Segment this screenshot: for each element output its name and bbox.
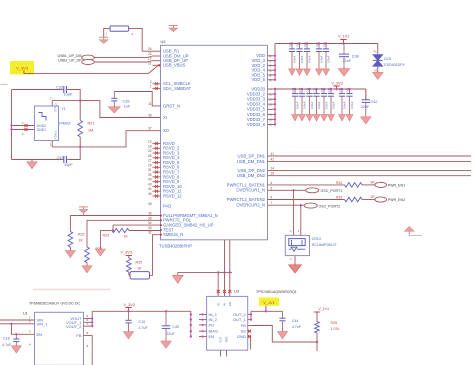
power net V_1V1 tap [338, 35, 349, 45]
capacitor C24 100nF [291, 87, 299, 114]
svg-text:5: 5 [271, 186, 273, 190]
wire EN net [12, 324, 35, 336]
svg-text:FB: FB [76, 333, 81, 338]
capacitor C41 100nF [346, 87, 354, 114]
U2 pin VDD33_6 [247, 112, 275, 117]
U2 pin VDD33_8 [247, 122, 275, 127]
svg-text:4.7uF: 4.7uF [139, 326, 149, 330]
svg-text:1M: 1M [88, 129, 93, 133]
U2 pin GRST_N [148, 102, 180, 108]
ground arrow below C40 [339, 115, 346, 121]
ground arrow below C33 [304, 69, 311, 75]
power symbol down-arrow above U2 [169, 25, 178, 31]
resistor R31 0R [345, 181, 376, 188]
U2 pin RSVD [148, 140, 175, 146]
wire SMBUS_N net [129, 235, 161, 276]
svg-text:4.7uF: 4.7uF [292, 325, 302, 329]
svg-text:RCLAMP0512T: RCLAMP0512T [312, 243, 338, 247]
ground arrow below C30 [289, 69, 296, 75]
svg-text:43: 43 [148, 182, 152, 186]
svg-text:46: 46 [268, 64, 272, 68]
ground arrow below C39 [108, 107, 120, 113]
ground arrow below C29 [328, 115, 335, 121]
wire U1 FB down [84, 336, 93, 365]
U2 pin VDD_6 [252, 77, 276, 82]
U2 bottom-left pin dots [160, 215, 162, 236]
svg-text:34: 34 [268, 123, 272, 127]
IC U3 box [207, 289, 248, 350]
ground arrow below C31 [296, 69, 303, 75]
svg-text:49: 49 [148, 202, 152, 206]
ground arrow below C42 [361, 117, 372, 124]
svg-text:RSVD_12: RSVD_12 [163, 193, 182, 198]
svg-text:100nF: 100nF [302, 101, 306, 109]
U2 pin SDA_SMBDAT [150, 84, 192, 90]
U1 left pin labels [29, 316, 49, 347]
ground arrow below C36 [323, 69, 330, 75]
svg-text:20: 20 [148, 149, 152, 153]
U3 part number [256, 290, 297, 294]
svg-text:PWRCTL1_BATEN1: PWRCTL1_BATEN1 [227, 182, 266, 187]
resistor R23 1K [103, 228, 130, 238]
U2 pin TEST [148, 226, 174, 232]
svg-text:U3: U3 [234, 289, 239, 293]
svg-text:OSC_PORT1: OSC_PORT1 [321, 189, 343, 193]
wire to U3 top pin x=229.8 [228, 272, 231, 296]
svg-text:EN: EN [37, 332, 43, 337]
svg-text:ESD401DPY: ESD401DPY [384, 63, 405, 67]
U2 pin USB_DM_UP [148, 52, 189, 58]
svg-text:EN: EN [228, 302, 232, 306]
ground arrow below C28 [321, 115, 328, 121]
svg-text:PWRCTL2_BATEN2: PWRCTL2_BATEN2 [227, 197, 266, 202]
U2 pin SMBUS_N [148, 231, 183, 237]
svg-text:GND: GND [237, 334, 246, 339]
svg-text:4: 4 [271, 181, 273, 185]
svg-text:7: 7 [271, 201, 273, 205]
power net label V_1V1 (highlighted) [259, 298, 279, 306]
wire USB_DM_DN1 [268, 160, 472, 162]
power net V_3V3 tap at R25 [121, 251, 133, 259]
svg-text:IN: IN [216, 303, 220, 306]
port PWR_EN1 [362, 182, 405, 187]
U3 bottom pin stubs [221, 350, 227, 356]
svg-text:SS: SS [240, 329, 246, 334]
svg-text:R22: R22 [78, 233, 85, 237]
wire PWRCTL_POL to R24 [87, 220, 161, 247]
svg-text:100nF: 100nF [342, 101, 346, 109]
ground arrow below C38 [338, 69, 350, 76]
wire VDD rail horizontal [275, 43, 378, 45]
wire TEST net [100, 230, 160, 232]
wire crystal top pin [50, 97, 80, 107]
wire OVERCUR1_N [268, 189, 306, 191]
svg-text:BIAS: BIAS [209, 329, 218, 334]
U3 pin BIAS [199, 329, 218, 334]
svg-text:35: 35 [268, 103, 272, 107]
svg-text:D15: D15 [384, 57, 391, 61]
resistor R25 1.07k [315, 321, 340, 333]
svg-text:100nF: 100nF [324, 101, 328, 109]
svg-text:PG: PG [209, 322, 215, 327]
U2 pin PWRCTL_POL [148, 216, 192, 222]
U2 pin VDD33 [252, 86, 276, 91]
capacitor C39 1uF [111, 92, 131, 109]
capacitor C40 100nF [338, 87, 346, 114]
wire OSC_PORT1 to CR14 [290, 190, 294, 235]
capacitor C35 100nF [315, 42, 323, 69]
ground arrow below C27 [313, 115, 320, 121]
svg-text:41: 41 [271, 152, 275, 156]
svg-text:26: 26 [268, 98, 272, 102]
U3 top pin label EN [228, 302, 232, 306]
svg-text:27: 27 [148, 159, 152, 163]
U2 pin RSVD_5 [148, 159, 180, 165]
ground arrow below C26 [306, 115, 313, 121]
wire XO to U2 [80, 131, 160, 147]
U3 pin IN_2 [199, 317, 218, 322]
svg-text:22uF: 22uF [343, 59, 352, 63]
svg-text:FB: FB [241, 323, 246, 328]
svg-text:R25: R25 [136, 261, 143, 265]
wire XI node to R21 [79, 99, 81, 120]
capacitor C30 100nF [288, 42, 296, 69]
U2 pin VDD_4 [252, 68, 276, 73]
svg-text:38: 38 [148, 114, 152, 118]
power symbol down-arrow at top-left resistor [99, 37, 108, 43]
svg-text:47: 47 [268, 59, 272, 63]
wire USB_DM_DN2 [268, 175, 472, 177]
svg-text:100nF: 100nF [307, 55, 311, 63]
svg-text:100nF: 100nF [300, 55, 304, 63]
svg-text:31: 31 [148, 168, 152, 172]
U2 pin USB_DP_DN2 [238, 167, 275, 173]
svg-text:PWR_EN1: PWR_EN1 [388, 184, 405, 188]
svg-text:C44: C44 [292, 319, 299, 323]
wire USB_DP_DN1 [268, 155, 472, 157]
svg-text:100nF: 100nF [331, 101, 335, 109]
wire USB_DP_DN2 [268, 170, 472, 172]
U2 pin SCL_SMBCLK [150, 80, 191, 86]
svg-text:R23: R23 [103, 234, 110, 238]
resistor R24 [85, 247, 102, 263]
U3 pin OUT_1 [233, 317, 251, 322]
power net label V_3V3 (highlighted) [10, 61, 34, 75]
svg-text:45: 45 [268, 69, 272, 73]
U2 pin XI [148, 114, 167, 120]
svg-text:34: 34 [148, 221, 152, 225]
svg-text:25: 25 [148, 154, 152, 158]
U2 pin RSVD_2 [148, 144, 180, 150]
svg-text:100nF: 100nF [310, 101, 314, 109]
svg-text:48: 48 [268, 54, 272, 58]
U2 pin FULLPWRMGMT_SMBA1_N [148, 212, 218, 218]
svg-text:Y1: Y1 [61, 107, 66, 111]
svg-text:XO: XO [163, 128, 170, 133]
svg-text:V_3V3: V_3V3 [332, 82, 343, 86]
U2 pin VDD33_2 [247, 92, 275, 97]
svg-text:C18: C18 [3, 337, 10, 341]
crystal Y1 24MHZ [34, 103, 71, 141]
wire to R22 [69, 216, 71, 232]
U2 pin PWRCTL1_BATEN1 [227, 181, 273, 187]
svg-text:OUT: OUT [219, 336, 223, 342]
U3 top pin label IN [216, 303, 220, 306]
U2 pin VDD33_3 [247, 97, 275, 102]
resistor box on SMBUS net [130, 272, 150, 279]
wire power arrow stem [82, 213, 84, 215]
diode array CR14 RCLAMP0512T [285, 235, 337, 255]
svg-text:1K: 1K [79, 239, 84, 243]
wire resistor to power arrow [104, 28, 110, 37]
U3 SS/GND stubs [248, 330, 251, 350]
svg-text:100nF: 100nF [292, 55, 296, 63]
port USB1_UP_DP [58, 59, 94, 65]
svg-text:36: 36 [148, 212, 152, 216]
power net V_1V1 tap at R25 [314, 307, 329, 322]
U2 pin RSVD_12 [148, 192, 182, 198]
svg-text:R25: R25 [331, 321, 338, 325]
svg-text:V_3V3: V_3V3 [121, 251, 132, 255]
svg-text:C32: C32 [56, 85, 63, 89]
U2 pin USB_R1 [148, 47, 180, 53]
ground arrow below crystal loop [27, 160, 38, 169]
ground arrow below C35 [316, 69, 323, 75]
svg-text:A2: A2 [374, 69, 378, 73]
wire VIN input [0, 319, 35, 321]
svg-text:C45: C45 [172, 325, 179, 329]
svg-text:A1: A1 [374, 49, 378, 53]
svg-text:USB_DM_DN2: USB_DM_DN2 [237, 173, 266, 178]
capacitor C45 22uF [162, 310, 179, 341]
svg-text:R21: R21 [88, 122, 95, 126]
wire crystal GND2 pin [10, 121, 34, 127]
capacitor C36 100nF [322, 42, 330, 69]
svg-text:32: 32 [148, 231, 152, 235]
port OSC_PORT2 [304, 203, 340, 208]
U3 pin GND [237, 334, 251, 339]
svg-text:V_1V1: V_1V1 [338, 35, 349, 39]
wire R25 bottom [316, 333, 318, 351]
svg-text:SNS: SNS [225, 337, 229, 343]
U2 pin GANGED_SMB42_HS_UP [148, 221, 214, 227]
wire U2 bottom to gnd rail [225, 240, 230, 272]
wire resistor to USB_R1 [129, 28, 153, 51]
U1 title [29, 302, 81, 306]
ground arrow below D15 [373, 72, 384, 79]
wire OSC_PORT2 to CR14 [298, 205, 301, 235]
capacitor C15 4.7uF [125, 311, 148, 331]
capacitor C43 value [64, 163, 73, 167]
U2 pin VDD33_7 [247, 117, 275, 122]
svg-text:100nF: 100nF [326, 55, 330, 63]
ground arrow below C15 [124, 332, 134, 339]
wire OVERCUR2_N [268, 204, 305, 206]
svg-text:44: 44 [148, 187, 152, 191]
U3 pin EN [199, 334, 214, 339]
U3 top pin label IN [223, 303, 227, 306]
svg-text:13: 13 [148, 140, 152, 144]
ground arrow left of R24 [95, 231, 105, 257]
U2 pin PAD [148, 202, 171, 208]
U2 pin RSVD_11 [148, 187, 182, 193]
power symbol down-arrow on FULLPWRMGMT net [79, 207, 88, 213]
wire VDD33 pin bus [274, 88, 276, 126]
U2 pin RSVD_8 [148, 173, 180, 179]
diode D15 ESD401DPY TVS [373, 55, 406, 67]
svg-text:1K: 1K [137, 267, 142, 271]
U2 pin RSVD_9 [148, 178, 180, 184]
svg-text:10pF: 10pF [64, 93, 73, 97]
wire FB net U3 [251, 326, 318, 344]
svg-text:42: 42 [271, 157, 275, 161]
svg-text:V_3V3: V_3V3 [124, 303, 135, 307]
svg-text:PWR_EN2: PWR_EN2 [388, 198, 405, 202]
svg-text:VOUT_2: VOUT_2 [66, 324, 82, 329]
svg-text:V_1V1: V_1V1 [263, 301, 274, 305]
svg-text:USB1_UP_DM: USB1_UP_DM [58, 54, 82, 58]
wire to U3 top pin x=224.5 [223, 272, 226, 296]
svg-text:29: 29 [148, 163, 152, 167]
svg-text:VDD33_8: VDD33_8 [247, 122, 266, 127]
svg-text:XTAL1: XTAL1 [54, 130, 58, 139]
svg-text:TPSM828214SILR -3V3 DC-DC: TPSM828214SILR -3V3 DC-DC [29, 302, 81, 306]
svg-text:TPS74801AQWDRCRQ1: TPS74801AQWDRCRQ1 [256, 290, 297, 294]
svg-text:6: 6 [271, 196, 273, 200]
svg-text:C15: C15 [139, 320, 146, 324]
svg-text:SMBUS_N: SMBUS_N [163, 232, 183, 237]
U2 pin OVERCUR2_N [236, 201, 272, 207]
U3 pin PG [199, 322, 214, 327]
wire to D15 [374, 44, 378, 55]
U2 pin VDD_3 [252, 58, 276, 63]
svg-text:V_3V3: V_3V3 [16, 66, 29, 71]
svg-text:24: 24 [148, 47, 152, 51]
svg-text:23: 23 [148, 52, 152, 56]
svg-text:USB_DP_DN1: USB_DP_DN1 [238, 153, 266, 158]
IC U1 box [23, 312, 84, 365]
svg-text:R32: R32 [336, 196, 342, 200]
wire gnd rail above U3 [178, 271, 232, 273]
U2 pin RSVD_7 [148, 168, 180, 174]
power symbol up-arrow right side [405, 227, 422, 236]
gray fragment left edge [0, 84, 8, 86]
svg-text:1uF: 1uF [124, 105, 131, 109]
wire crystal ground loop [12, 90, 62, 160]
svg-text:XI: XI [163, 115, 167, 120]
U1 right pin labels [66, 314, 89, 348]
U2 pin USB_DP_DN1 [238, 152, 275, 158]
svg-text:44: 44 [268, 74, 272, 78]
svg-text:OSC_PORT2: OSC_PORT2 [319, 204, 341, 208]
svg-text:VDD_6: VDD_6 [252, 77, 266, 82]
wire XI to U2 [80, 101, 160, 118]
wire D15 to ground [374, 66, 378, 72]
U3 pin SS [240, 329, 251, 334]
U2 pin USB_DP_UP [148, 57, 188, 63]
wire VDD pin bus [274, 44, 276, 82]
power net V_3V3 tap [332, 82, 343, 91]
wire R25 to R-box [128, 272, 130, 275]
wire VOUT bus [91, 311, 93, 327]
svg-text:CR14: CR14 [312, 237, 321, 241]
svg-text:14: 14 [271, 167, 275, 171]
port OSC_PORT1 [306, 188, 343, 193]
capacitor C25 100nF [298, 87, 306, 114]
wire C32 to XI node [70, 90, 81, 101]
wire V_1V1 rail [251, 310, 283, 312]
svg-text:V_1V1: V_1V1 [318, 307, 329, 311]
capacitor C27 100nF [313, 87, 321, 114]
svg-text:18: 18 [148, 144, 152, 148]
svg-text:EN: EN [209, 334, 215, 339]
wire USB1_UP_DP to U2 [94, 61, 152, 62]
svg-text:33: 33 [148, 226, 152, 230]
power net V_3V3 tap bottom [124, 303, 135, 312]
ground arrow below CR14 [289, 265, 302, 273]
resistor R32 0R [345, 195, 376, 202]
U2 pin RSVD_4 [148, 154, 180, 160]
U2 pin USB_DM_DN2 [237, 172, 274, 178]
port USB1_UP_DM [58, 54, 95, 60]
resistor R? top-left [106, 26, 134, 36]
U3 pin IN_1 [199, 312, 218, 317]
ground arrow below C24 [292, 115, 299, 121]
svg-text:OVERCUR2_N: OVERCUR2_N [236, 203, 265, 208]
capacitor C44 4.7uF [279, 311, 301, 331]
svg-text:OUT_1: OUT_1 [233, 317, 247, 322]
svg-text:XTAL2: XTAL2 [54, 103, 58, 112]
U2 pin RSVD_6 [148, 163, 180, 169]
svg-text:100nF: 100nF [295, 101, 299, 109]
wire R21 to XO node [79, 137, 81, 148]
wire to U3 top pin x=218.2 [217, 272, 220, 296]
wire U3 OUT bus [250, 311, 252, 321]
svg-text:0R: 0R [371, 195, 376, 199]
wire V_1V1 tap [265, 306, 267, 313]
svg-text:100nF: 100nF [319, 55, 323, 63]
svg-text:C42: C42 [371, 100, 378, 104]
U2 pin VDD_5 [252, 72, 276, 77]
capacitor C28 100nF [320, 87, 328, 114]
svg-text:39: 39 [148, 173, 152, 177]
capacitor C43 10pF (body) [57, 156, 70, 163]
svg-text:IN_2: IN_2 [209, 317, 218, 322]
svg-text:10pF: 10pF [64, 163, 73, 167]
U2 pin VDD33_5 [247, 107, 275, 112]
svg-text:24MHZ: 24MHZ [59, 122, 72, 126]
wire GANGED_SMB42_HS_UP [112, 225, 161, 232]
ground arrow below R24 [82, 263, 92, 273]
capacitor C31 100nF [296, 42, 304, 69]
svg-text:U2: U2 [161, 39, 167, 44]
U2 pin VDD_2 [252, 63, 276, 68]
U2 pin USB_DM_DN1 [237, 157, 274, 163]
svg-text:TUSB4020BIPHP: TUSB4020BIPHP [159, 244, 192, 249]
wire PWRCTL1 to R31 [268, 181, 345, 185]
wire VIN_1 input [0, 323, 35, 325]
svg-text:GRST_N: GRST_N [163, 103, 180, 108]
svg-text:OVERCUR1_N: OVERCUR1_N [236, 188, 265, 193]
svg-text:USB1_UP_DP: USB1_UP_DP [58, 59, 82, 63]
svg-text:4.7uF: 4.7uF [2, 343, 12, 347]
svg-text:USB_VBUS: USB_VBUS [163, 63, 186, 68]
svg-text:37: 37 [148, 127, 152, 131]
capacitor C33 100nF [303, 42, 311, 69]
ground arrow left of U3 [172, 272, 183, 283]
U2 pin VDD [256, 53, 275, 58]
U3 pin FB [241, 323, 251, 328]
